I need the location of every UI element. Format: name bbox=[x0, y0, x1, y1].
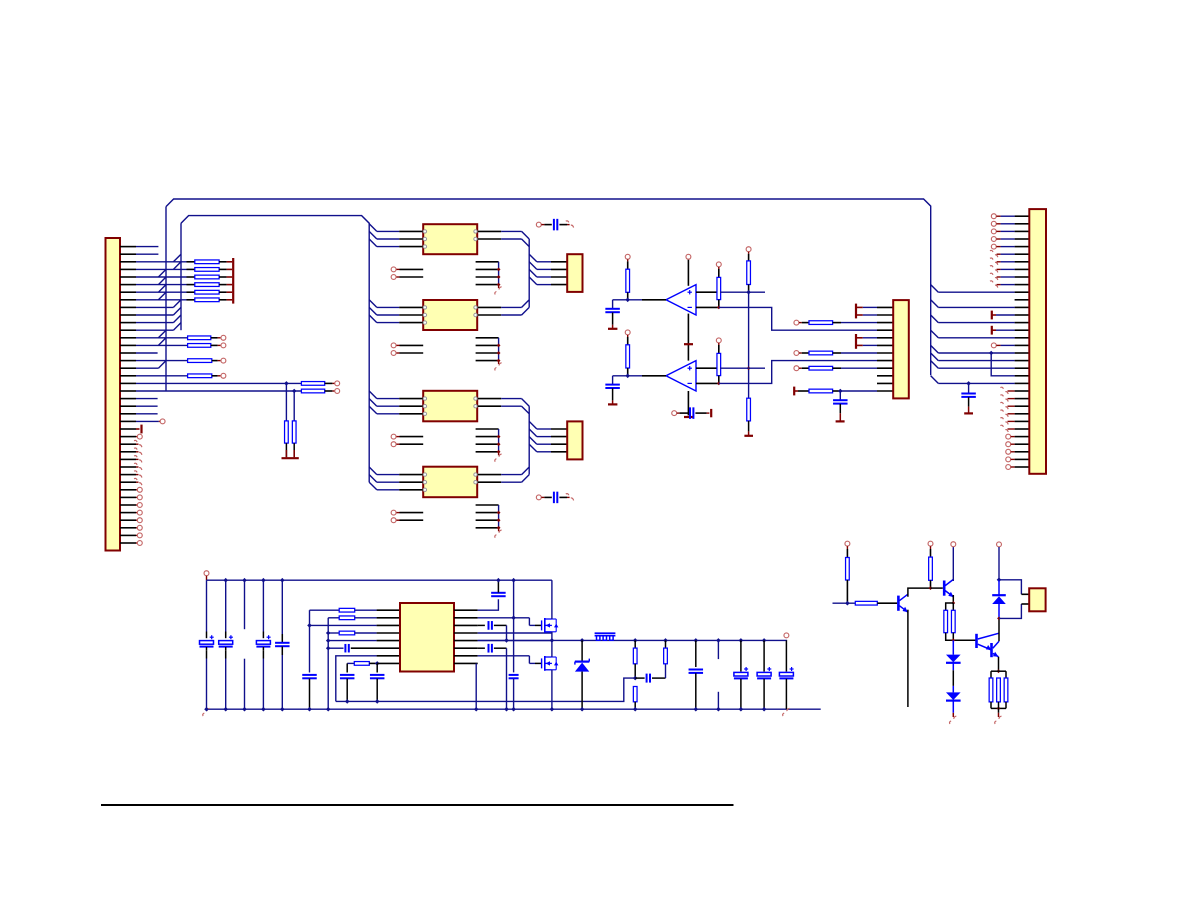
bus entry diagonal row k10 bbox=[173, 315, 181, 323]
J2 pin lead row 15 bbox=[1015, 360, 1030, 362]
free pin stub row 15 bbox=[476, 360, 499, 362]
wire: IC input row -1 bbox=[377, 238, 399, 240]
wire: vertical B down to bottom rail bbox=[327, 618, 329, 709]
CON1 pin lead row 4 bbox=[551, 276, 567, 278]
port circle feedback R bbox=[716, 338, 721, 343]
bootstrap capacitor on H2 bbox=[478, 624, 485, 626]
R14 top bar bbox=[991, 670, 1006, 672]
wire: R13 pair merge bbox=[946, 633, 976, 641]
junction Q4 emitter bbox=[951, 601, 955, 605]
junction Rb bottom bbox=[746, 290, 751, 295]
divider resistor Rb bbox=[748, 252, 750, 254]
wire: IC input row 31 bbox=[377, 481, 399, 483]
wire: J1 row k2 to resistor array bbox=[136, 261, 187, 263]
free pin stub row 25 bbox=[476, 436, 499, 438]
junction vertical A row H2 bbox=[307, 623, 312, 628]
J2 pin lead row 3 bbox=[1015, 268, 1030, 270]
J1 pin row 35 lead bbox=[120, 512, 136, 514]
CON3 pin lead row 13 bbox=[877, 344, 893, 346]
J2 pin lead row 2 bbox=[1015, 261, 1030, 263]
op-amp U5B + input pin bbox=[696, 367, 720, 369]
transistor Q4 (NPN) bbox=[943, 581, 946, 596]
IC input stair diagonal row -1 bbox=[369, 231, 377, 239]
bus exit diagonal J2 row 16 bbox=[931, 361, 939, 369]
IC input stair diagonal row 31 bbox=[369, 475, 377, 483]
J2 pin lead row 21 bbox=[1015, 405, 1030, 407]
J2 pin lead row 19 bbox=[1015, 390, 1030, 392]
CON3 pin lead row 9 bbox=[877, 314, 893, 316]
coupling capacitor C_mid with port bbox=[672, 411, 677, 416]
no-ERC marker under diode stack bbox=[950, 716, 957, 724]
input filter capacitor bbox=[605, 308, 620, 310]
wire: U5B - output net to mid connector bbox=[719, 361, 877, 384]
ground leads of R_v1 R_v2 bbox=[285, 443, 287, 457]
IC output diagonal row 20 bbox=[522, 399, 530, 407]
J1 pin row 37 lead bbox=[120, 527, 136, 529]
free pin stub with port row 25 bbox=[396, 436, 399, 438]
J2 pin lead row 14 bbox=[1015, 352, 1030, 354]
J1 pin row 17 lead bbox=[120, 375, 136, 377]
bus A diagonals at resistor rows bbox=[158, 269, 166, 277]
wire: J1 pin k20 stub bbox=[136, 398, 158, 400]
junction node row k19 bbox=[292, 389, 297, 394]
wire: J2 row -3 bbox=[1001, 223, 1015, 225]
wire: H4 mid rail start bbox=[478, 640, 552, 642]
J2 row 26 port bbox=[1006, 442, 1011, 447]
resistor R7 bbox=[634, 640, 636, 648]
R14 bottom bar bbox=[990, 702, 992, 709]
ground bar bbox=[964, 412, 973, 414]
transistor Q6 (NPN darlington second) bbox=[990, 643, 993, 657]
wire: LED bottom to connector CON4 bbox=[999, 604, 1021, 618]
IC input pin lead row 9 bbox=[399, 314, 423, 316]
wire: IC output row 20 bbox=[501, 398, 521, 400]
J2 row 22 no-connect marker bbox=[1008, 413, 1015, 415]
stair diagonal to CON2 row 27 bbox=[529, 444, 537, 452]
IC U4 bbox=[423, 467, 477, 498]
wire: J1 pin k1 stub bbox=[136, 253, 158, 255]
junction node row k18 bbox=[284, 381, 289, 386]
junction R_h4 right bbox=[375, 661, 380, 666]
resistor R14c bbox=[1004, 678, 1008, 702]
port circle row k17 bbox=[221, 373, 226, 378]
J1 pin row 19 lead bbox=[120, 390, 136, 392]
schottky diode D1 bbox=[580, 638, 585, 643]
port circle row k13 bbox=[221, 343, 226, 348]
wire: IC input row 10 bbox=[377, 322, 399, 324]
ground lead bbox=[612, 313, 614, 325]
wire: J1 row k8 to bus B bbox=[136, 306, 173, 308]
capacitor C_bot (below U4 outputs) bbox=[536, 495, 541, 500]
no-ERC marker under tie wire bbox=[495, 363, 502, 371]
CON2 pin lead row 24 bbox=[551, 428, 567, 430]
op-amp U5B V- pin down bbox=[687, 391, 689, 415]
J2 pin lead row 13 bbox=[1015, 344, 1030, 346]
wire: H0 to input cap bbox=[478, 599, 499, 610]
resistor R13b bbox=[952, 603, 954, 610]
power bar rows G8-G9 bbox=[855, 304, 857, 319]
resistor RN1 bbox=[187, 261, 195, 263]
J1 pin row 25 lead bbox=[120, 436, 136, 438]
J2 pin lead row 20 bbox=[1015, 398, 1030, 400]
J1 pin row 4 lead bbox=[120, 276, 136, 278]
CON3 pin lead row 12 bbox=[877, 337, 893, 339]
J1 pin row 26 lead bbox=[120, 443, 136, 445]
wire: power bar to CON3 row 13 bbox=[856, 344, 863, 346]
resistor R_h2 (row H1) bbox=[328, 617, 339, 619]
IC output pin lead row 21 bbox=[477, 405, 501, 407]
J2 pin lead row 12 bbox=[1015, 337, 1030, 339]
IC input stair diagonal row 22 bbox=[369, 406, 377, 414]
wire: divider column vertical bbox=[748, 292, 750, 398]
wire: Q3 collector to R12 bbox=[908, 588, 931, 597]
bus exit diagonal J2 row 8 bbox=[931, 300, 939, 308]
J1 pin row 2 lead bbox=[120, 261, 136, 263]
CON3 pin lead row 11 bbox=[877, 329, 893, 331]
J1 row k31 no-connect marker bbox=[136, 481, 139, 483]
capacitor on H5 bbox=[478, 647, 485, 649]
J1 pin row 10 lead bbox=[120, 322, 136, 324]
wire: IC input row 20 bbox=[377, 398, 399, 400]
wire: J2 row 4 bbox=[1001, 276, 1015, 278]
port circle R12 bbox=[928, 541, 933, 546]
stair diagonal to CON2 row 25 bbox=[529, 429, 537, 437]
port circle input R bbox=[625, 330, 630, 335]
wire: IC input row 30 bbox=[377, 474, 399, 476]
J1 pin row 21 lead bbox=[120, 405, 136, 407]
wire: base row bbox=[833, 602, 856, 604]
wire: collectors vertical to LED node bbox=[998, 618, 1000, 641]
output bulk cap at x=764.1 bbox=[762, 638, 767, 643]
IC input pin lead row 8 bbox=[399, 306, 423, 308]
op-amp U5A + input pin bbox=[696, 291, 720, 293]
IC input pin lead row 32 bbox=[399, 489, 423, 491]
IC input pin lead row 22 bbox=[399, 413, 423, 415]
connector CON4 bbox=[1029, 588, 1045, 611]
J1 pin row 32 lead bbox=[120, 489, 136, 491]
wire: data bus to J2 row 10 bbox=[938, 322, 1014, 324]
J1 pin row 22 lead bbox=[120, 413, 136, 415]
free pin stub with port row 35 bbox=[396, 512, 399, 514]
ground bar under cap bbox=[836, 420, 845, 422]
wire: to Q4 base bbox=[931, 587, 943, 589]
J2 pin lead row 18 bbox=[1015, 382, 1030, 384]
free pin stub with port row 4 bbox=[396, 276, 399, 278]
connector J1 (left edge card connector) bbox=[106, 238, 121, 551]
CON3 pin lead row 16 bbox=[877, 367, 893, 369]
op-amp U5A - input pin bbox=[696, 306, 719, 308]
inductor L1 bbox=[595, 632, 616, 634]
wire: data bus to J2 row 16 bbox=[938, 367, 1014, 369]
J2 row -3 port bbox=[991, 221, 996, 226]
J1 row k28 no-connect marker bbox=[136, 458, 139, 460]
junction on tie wire bbox=[497, 526, 501, 530]
J2 pin lead row 17 bbox=[1015, 375, 1030, 377]
free pin stub with port row 14 bbox=[396, 352, 399, 354]
wire: J2 row 2 bbox=[1001, 261, 1015, 263]
free pin stub row 37 bbox=[476, 527, 499, 529]
resistor R_k15 bbox=[188, 359, 212, 363]
port circle LED column bbox=[997, 542, 1002, 547]
free pin stub row 24 bbox=[476, 428, 499, 430]
wire: data bus to J2 row 18 bbox=[938, 382, 1014, 384]
port J2 row 13 bbox=[991, 343, 996, 348]
IC input pin lead row 20 bbox=[399, 398, 423, 400]
wire: J1 pin k0 stub bbox=[136, 246, 158, 248]
no-ERC marker under tie wire bbox=[495, 454, 502, 462]
wire: Q6 emitter down to R14 bbox=[998, 657, 1000, 671]
junction LED bottom bbox=[997, 617, 1001, 621]
filter capacitor row 19 bbox=[833, 399, 848, 401]
wire: U5A + input row bbox=[720, 291, 765, 293]
bulk cap C10 column bbox=[206, 580, 208, 631]
wire: J1 row k19 long wire bbox=[136, 390, 301, 392]
J1 pin row 33 lead bbox=[120, 496, 136, 498]
J1 pin row 20 lead bbox=[120, 398, 136, 400]
resistor R8 bbox=[663, 638, 668, 643]
wire: to CON1 pin row 3 bbox=[537, 268, 551, 270]
J1 pin row 7 lead bbox=[120, 299, 136, 301]
bus entry diagonal row k11 bbox=[173, 323, 181, 331]
IC output pin lead row 9 bbox=[477, 314, 501, 316]
J2 row 29 port bbox=[1006, 465, 1011, 470]
wire: Q3 emitter down bbox=[907, 610, 909, 707]
port circle row k12 bbox=[221, 335, 226, 340]
J2 pin lead row 27 bbox=[1015, 451, 1030, 453]
resistor R11 bbox=[855, 601, 877, 605]
junction R14 top bbox=[997, 669, 1001, 673]
IC input pin lead row 10 bbox=[399, 322, 423, 324]
stair diagonal to CON2 row 24 bbox=[529, 421, 537, 429]
port circle power input bbox=[204, 571, 209, 576]
bus exit diagonal J2 row 15 bbox=[931, 353, 939, 361]
junction on tie wire bbox=[497, 442, 501, 446]
wire: IC input row 21 bbox=[377, 405, 399, 407]
IC input pin lead row -1 bbox=[399, 238, 423, 240]
J1 pin row 0 lead bbox=[120, 246, 136, 248]
wire: top bus wire 2 bbox=[181, 216, 369, 483]
no-ERC marker below output column bbox=[783, 708, 790, 716]
J2 pin lead row -4 bbox=[1015, 215, 1030, 217]
J1 pin row 29 lead bbox=[120, 466, 136, 468]
ground lead of cap bbox=[839, 404, 841, 413]
wire: Q2 source to bottom rail bbox=[551, 670, 553, 709]
wire: vertical A (R_h1 corner down) bbox=[309, 610, 311, 672]
port circle CON3 row 10 bbox=[794, 320, 799, 325]
J1 pin row 36 lead bbox=[120, 519, 136, 521]
bus exit diagonal J2 row 10 bbox=[931, 315, 939, 323]
wire: J1 row k3 to resistor array bbox=[136, 268, 187, 270]
IC U6 (power controller) bbox=[400, 603, 454, 672]
J2 pin lead row -3 bbox=[1015, 223, 1030, 225]
wire: to CON2 pin row 27 bbox=[537, 451, 551, 453]
J1 pin row 14 lead bbox=[120, 352, 136, 354]
capacitor on V1 bbox=[509, 674, 519, 676]
J2 row 5 no-connect marker bbox=[990, 281, 998, 288]
wire: between diodes bbox=[952, 663, 954, 671]
ground bar under R_v1 R_v2 bbox=[282, 457, 299, 459]
IC output diagonal row -1 bbox=[522, 239, 530, 247]
wire: J1 row k13 to resistor bbox=[136, 344, 188, 346]
IC output diagonal row 30 bbox=[522, 467, 530, 475]
resistor RN5 bbox=[187, 291, 195, 293]
input bypass capacitor bbox=[491, 592, 506, 594]
junction feedback node bbox=[633, 676, 638, 681]
ground bar bbox=[608, 328, 617, 330]
J2 row 1 no-connect marker bbox=[990, 250, 998, 257]
IC input pin lead row 31 bbox=[399, 481, 423, 483]
MOSFET Q2 (low side) bbox=[541, 658, 543, 668]
port circle Q4 collector bbox=[951, 542, 956, 547]
resistor R_k19 bbox=[301, 389, 324, 393]
free pin stub row 36 bbox=[476, 519, 499, 521]
J1 row k30 no-connect marker bbox=[136, 474, 139, 476]
J1 pin row 8 lead bbox=[120, 306, 136, 308]
stair diagonal to CON2 row 26 bbox=[529, 437, 537, 445]
tie wire tail bbox=[498, 361, 500, 365]
resistor RN4 bbox=[187, 284, 195, 286]
component column with gap bbox=[244, 580, 246, 629]
MOSFET Q1 (high side) bbox=[541, 620, 543, 630]
J1 row k35 port bbox=[136, 512, 137, 514]
J1 pin row 16 lead bbox=[120, 367, 136, 369]
J2 pin lead row 29 bbox=[1015, 466, 1030, 468]
IC input stair diagonal row -2 bbox=[369, 224, 377, 232]
J2 row 0 port bbox=[991, 244, 996, 249]
J1 row k37 port bbox=[136, 527, 137, 529]
J1 pin row 1 lead bbox=[120, 253, 136, 255]
bus exit diagonal J2 row 12 bbox=[931, 330, 939, 338]
IC input stair diagonal row 10 bbox=[369, 315, 377, 323]
junction at op-amp input bbox=[625, 374, 630, 379]
wire: Q4 collector up to port bbox=[952, 547, 954, 581]
CON2 pin lead row 26 bbox=[551, 443, 567, 445]
port circle U5A V+ bbox=[686, 254, 691, 259]
IC output pin lead row -1 bbox=[477, 238, 501, 240]
IC U3 bbox=[423, 391, 477, 422]
J2 pin lead row 6 bbox=[1015, 291, 1030, 293]
wire: row 19 to CON3 bbox=[840, 390, 877, 392]
port circle divider top bbox=[746, 247, 751, 252]
resistor R10 bbox=[846, 546, 848, 549]
wire: Q4 emitter down bbox=[952, 595, 954, 603]
wire: H6 bottom gate drive with jog bbox=[478, 655, 530, 657]
J1 row k38 port bbox=[136, 534, 137, 536]
bus vertical right of U1/U2 bbox=[528, 239, 530, 307]
J1 row k36 port bbox=[136, 519, 137, 521]
junction on tie wire bbox=[497, 518, 501, 522]
power bar between op-amps bbox=[684, 343, 693, 345]
wire: power bar to CON3 row 12 bbox=[856, 337, 863, 339]
op-amp U5B triangle bbox=[666, 361, 696, 391]
tie wire tail bbox=[498, 285, 500, 289]
port circle at output rail end bbox=[784, 633, 789, 638]
wire: input node bbox=[613, 299, 642, 301]
J2 pin lead row 24 bbox=[1015, 428, 1030, 430]
port circle row k19 bbox=[335, 389, 340, 394]
wire: J2 row -1 bbox=[1001, 238, 1015, 240]
wire: J2 row 0 bbox=[1001, 246, 1015, 248]
J1 pin row 39 lead bbox=[120, 542, 136, 544]
IC output diagonal row 21 bbox=[522, 406, 530, 414]
J2 row 2 no-connect marker bbox=[990, 258, 998, 265]
wire: row H6 feedback bbox=[336, 656, 377, 702]
free pin stub row 5 bbox=[476, 284, 499, 286]
J1 pin row 13 lead bbox=[120, 344, 136, 346]
free pin stub row 2 bbox=[476, 261, 499, 263]
J1 row k33 port bbox=[136, 496, 137, 498]
free pin stub row 34 bbox=[476, 504, 499, 506]
IC U2 bbox=[423, 300, 477, 330]
junction on tie wire bbox=[497, 275, 501, 279]
J2 pin lead row 16 bbox=[1015, 367, 1030, 369]
J1 pin row 38 lead bbox=[120, 534, 136, 536]
connector CON1 bbox=[567, 254, 582, 292]
J2 pin lead row -2 bbox=[1015, 230, 1030, 232]
J2 row 24 no-connect marker bbox=[1008, 428, 1015, 430]
wire: J1 pin k22 stub bbox=[136, 413, 158, 415]
junction at - input bbox=[717, 382, 721, 386]
bulk cap C11 column bbox=[225, 580, 227, 631]
junction at U5B + row bbox=[747, 366, 751, 370]
J2 row 25 port bbox=[1006, 434, 1011, 439]
free pin stub row 4 bbox=[476, 276, 499, 278]
wire: input node bbox=[613, 375, 642, 377]
wire: J2 row -4 bbox=[1001, 215, 1015, 217]
output bulk cap at x=740.9 bbox=[739, 638, 744, 643]
output bulk cap right end bbox=[785, 640, 787, 671]
CON3 pin lead row 10 bbox=[877, 322, 893, 324]
wire: J1 row k16 to bus A bbox=[136, 367, 158, 369]
CON1 pin lead row 2 bbox=[551, 261, 567, 263]
junction at op-amp input bbox=[625, 298, 630, 303]
J2 pin lead row 26 bbox=[1015, 443, 1030, 445]
op-amp U5A triangle bbox=[666, 285, 696, 315]
J1 pin row 3 lead bbox=[120, 268, 136, 270]
wire: k19 node down to R_v2 bbox=[293, 391, 295, 421]
J1 pin row 30 lead bbox=[120, 474, 136, 476]
bus vertical right of U3/U4 bbox=[528, 406, 530, 474]
J1 pin row 5 lead bbox=[120, 284, 136, 286]
feedback cap C14 bbox=[635, 677, 644, 679]
CON3 pin lead row 15 bbox=[877, 360, 893, 362]
wire: data bus to J2 row 14 bbox=[938, 352, 1014, 354]
wire: J1 row k6 to resistor array bbox=[136, 291, 187, 293]
op-amp U5A output pin bbox=[642, 299, 666, 301]
wire: feedback line bbox=[336, 678, 635, 701]
wire: IC output row 8 bbox=[501, 306, 521, 308]
wire: LED column top bbox=[998, 547, 1000, 580]
wire: long vertical V1 with cap bbox=[513, 580, 515, 672]
wire: IC output row 21 bbox=[501, 405, 521, 407]
wire: top power rail bbox=[207, 579, 552, 581]
wire: to CON2 pin row 25 bbox=[537, 436, 551, 438]
J2 row 3 no-connect marker bbox=[990, 266, 998, 273]
stair diagonal to CON1 row 3 bbox=[529, 262, 537, 270]
wire: cap lead bbox=[968, 383, 970, 393]
capacitor C_top (above U1 outputs) bbox=[536, 222, 541, 227]
J2 row -1 port bbox=[991, 237, 996, 242]
op-amp U5B output pin bbox=[642, 375, 666, 377]
wire: Q1 gate lead bbox=[529, 624, 535, 626]
Rc ground lead bbox=[748, 421, 750, 432]
wire: H1 top gate drive with jog bbox=[478, 617, 530, 619]
J2 row -2 port bbox=[991, 229, 996, 234]
output column with gap bbox=[716, 638, 721, 643]
wire: J1 row k17 to resistor bbox=[136, 375, 188, 377]
port circle input R bbox=[625, 254, 630, 259]
wire: bootstrap to switch node bbox=[506, 625, 508, 640]
